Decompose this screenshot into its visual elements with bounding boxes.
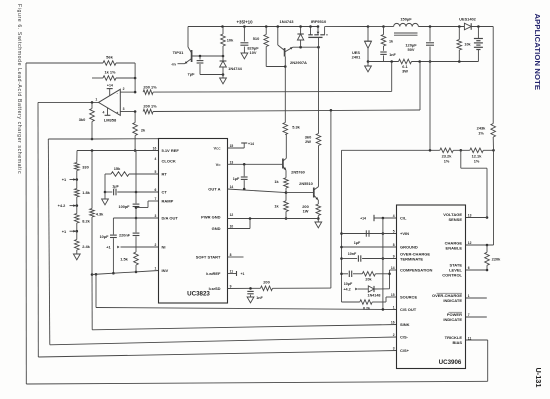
svg-text:ILIMSD: ILIMSD: [209, 286, 221, 291]
terminal +1 upper tap: [62, 177, 77, 182]
capacitor 10uF: [110, 218, 117, 275]
diode 1N4148 label: [368, 294, 381, 298]
svg-text:UC3823: UC3823: [187, 291, 210, 298]
capacitor 100pF: [133, 204, 140, 219]
diode UES1402 label: [459, 17, 476, 22]
terminal -In stub: [178, 63, 185, 65]
UC3906 right pin labels: [432, 212, 472, 345]
resistor 15k label: [114, 166, 121, 171]
right header "APPLICATION NOTE": [533, 14, 542, 91]
svg-text:2.4k: 2.4k: [82, 244, 90, 249]
svg-text:TERMINATE: TERMINATE: [400, 257, 423, 262]
mosfet IRF9510 body arrow lead: [317, 27, 320, 35]
svg-text:7μF: 7μF: [188, 72, 196, 77]
wire GROUND row: [342, 246, 397, 248]
resistor 5.3k label: [292, 125, 300, 130]
wire 5.1V REF row: [77, 149, 159, 152]
bottom right doc number "U-131": [534, 368, 543, 388]
svg-text:200: 200: [263, 279, 270, 284]
resistor 1.5k: [134, 252, 139, 273]
wire INV row to C/S OUT pin: [95, 273, 397, 310]
transistor TIP31 body bar: [191, 50, 193, 62]
wire over-charge indicate row: [466, 297, 487, 299]
svg-text:56k: 56k: [106, 55, 113, 60]
resistor 56k label: [106, 55, 113, 60]
wire rail drain section: [325, 25, 370, 28]
svg-text:1%: 1%: [478, 130, 484, 135]
svg-text:+14: +14: [360, 217, 366, 221]
resistor 1k lower label: [274, 205, 279, 209]
resistor 360 2W label: [305, 135, 312, 145]
wire PWR GND rail: [228, 217, 319, 220]
svg-text:+14: +14: [107, 83, 113, 87]
svg-text:3: 3: [123, 107, 125, 111]
svg-text:Figure 6. Switchmode Lead-Acid: Figure 6. Switchmode Lead-Acid Battery c…: [16, 4, 22, 174]
capacitor 1uF UC3906 label: [354, 241, 361, 245]
wire +35/+10 rail left section: [188, 26, 318, 28]
UC3906 label: [439, 359, 462, 366]
resistor 360 2W: [316, 47, 321, 145]
resistor 1k snubber: [381, 27, 386, 51]
svg-text:1nF: 1nF: [256, 296, 263, 300]
svg-text:4: 4: [154, 157, 156, 161]
transistor Q2 collector: [314, 146, 319, 191]
capacitor 1uF driver label: [233, 177, 240, 181]
svg-text:1μF: 1μF: [112, 185, 119, 189]
svg-text:220k: 220k: [492, 257, 501, 262]
svg-text:+1: +1: [241, 272, 245, 276]
inductor core lines: [394, 33, 418, 35]
resistor 1k upper label: [274, 180, 279, 184]
resistor 220k: [485, 245, 490, 271]
UC3823 label: [187, 291, 210, 298]
terminal +14 at VCC: [228, 142, 255, 148]
wire +VIN feed drop: [340, 150, 343, 302]
svg-text:1: 1: [393, 306, 395, 310]
svg-text:10nF: 10nF: [348, 252, 357, 256]
op-amp pin 2 number: [123, 87, 125, 91]
svg-text:8.2k: 8.2k: [363, 306, 371, 310]
UC3906 left pin labels: [391, 214, 433, 353]
svg-text:16: 16: [153, 147, 157, 151]
svg-text:6: 6: [468, 266, 470, 270]
resistor 510 label: [253, 36, 260, 41]
wire ILIM SD row: [228, 287, 261, 290]
charger IC U2 UC3906 box: [397, 205, 466, 369]
svg-text:D/A OUT: D/A OUT: [162, 216, 179, 221]
wire rail to snubber: [368, 25, 385, 28]
svg-text:3: 3: [393, 347, 395, 351]
svg-text:UC3906: UC3906: [439, 359, 462, 366]
op-amp minus sign: [117, 91, 119, 95]
svg-text:150μF: 150μF: [400, 17, 412, 22]
resistor 200 ILIM label: [263, 279, 270, 284]
svg-text:C/S-: C/S-: [400, 335, 409, 340]
svg-text:PWR GND: PWR GND: [201, 215, 220, 220]
inductor 150uF label: [400, 17, 412, 22]
svg-text:15k: 15k: [114, 166, 121, 171]
resistor 2k below pin3: [133, 112, 138, 152]
resistor 8.2k label: [82, 219, 90, 224]
ground below UES 2401: [365, 60, 372, 72]
svg-text:1%: 1%: [474, 158, 480, 163]
ground below RT/CT: [102, 192, 109, 205]
wire GND pin jog: [228, 219, 251, 229]
transistor 2N2907A collector wire: [278, 27, 285, 51]
zener 1N4744 label: [228, 66, 242, 71]
wire C/L to +VIN vertical: [382, 218, 385, 311]
wire output return line: [368, 60, 478, 63]
capacitor 7uF label: [188, 72, 196, 77]
svg-text:+35/+10: +35/+10: [236, 20, 253, 25]
wire power indicate row: [466, 316, 487, 318]
capacitor 10nF over-charge terminate: [342, 255, 397, 261]
wire D/A OUT row: [113, 217, 158, 219]
wire charge enable drop: [466, 150, 494, 246]
svg-text:5.3k: 5.3k: [292, 125, 300, 130]
svg-text:1N4744: 1N4744: [228, 66, 242, 71]
resistor 330: [75, 151, 80, 181]
capacitor 10uF comp label: [344, 282, 353, 286]
svg-text:C/L: C/L: [400, 216, 407, 221]
wire SOFT START stub: [228, 256, 244, 258]
wire REF row drop x136: [135, 151, 137, 204]
wire +VIN row: [342, 230, 397, 236]
op-amp output wire: [38, 101, 99, 104]
svg-text:VC: VC: [216, 162, 222, 167]
capacitor 10uF label: [100, 235, 110, 239]
transistor Q1 2N5760 bar: [282, 159, 284, 169]
svg-text:VCC: VCC: [213, 146, 221, 151]
terminal +1 lower tap: [62, 229, 77, 234]
svg-text:+VIN: +VIN: [400, 231, 409, 236]
svg-text:SINK: SINK: [400, 322, 410, 327]
ground below 2.4k: [73, 254, 80, 260]
svg-text:CONTROL: CONTROL: [442, 273, 462, 278]
zener 1N4743: [297, 27, 303, 48]
svg-text:-In: -In: [171, 61, 176, 66]
terminal +14 at C/L: [360, 215, 396, 221]
svg-text:12: 12: [468, 241, 472, 245]
resistor 1k lower driver: [284, 193, 289, 220]
svg-text:2W: 2W: [305, 139, 311, 144]
wire 56k right drop to inv input: [134, 63, 137, 93]
resistor 4.3k from REF row: [90, 151, 95, 276]
op-amp pin 3 number: [123, 107, 125, 111]
wire sense line A (shunt left to op-amp): [153, 62, 392, 93]
svg-text:+4.2: +4.2: [343, 288, 350, 292]
op-amp plus sign: [116, 111, 119, 115]
capacitor 220nF: [133, 218, 140, 252]
transistor Q1 label 2N5760: [291, 170, 305, 175]
svg-text:C/S OUT: C/S OUT: [400, 307, 417, 312]
op-amp pin 3 input wire: [120, 110, 136, 113]
wire trickle-bias loop (outermost): [26, 63, 488, 384]
capacitor 820uF 10V: [240, 27, 248, 59]
svg-text:220nF: 220nF: [119, 233, 131, 237]
capacitor 1nF snubber label: [389, 53, 396, 57]
capacitor 1nF snubber: [380, 52, 386, 62]
resistor 8.2k uc3906 label: [363, 306, 371, 310]
svg-text:1%: 1%: [444, 158, 450, 163]
capacitor 1uF on CT row: [105, 189, 159, 196]
svg-text:OUT A: OUT A: [208, 187, 220, 192]
svg-text:+4.2: +4.2: [58, 203, 67, 208]
svg-text:200 1%: 200 1%: [143, 84, 157, 89]
capacitor 100pF label: [119, 205, 131, 209]
resistor 5.3k gate drive: [283, 123, 288, 135]
resistor 1.5k label: [120, 257, 128, 262]
wire voltage sense tap: [461, 150, 489, 219]
resistor 1.8k label: [82, 190, 90, 195]
svg-text:BIAS: BIAS: [452, 340, 462, 345]
svg-text:6: 6: [154, 188, 156, 192]
svg-text:APPLICATION NOTE: APPLICATION NOTE: [533, 14, 542, 91]
resistor 200 1% lower: [143, 109, 153, 114]
diode 1N4148 to compensation: [358, 286, 390, 292]
transistor Q1 emitter: [283, 166, 286, 170]
resistor 4.3k label: [96, 212, 104, 217]
left margin caption "Figure 6. Switchmode Lead-Acid Battery charger schematic": [16, 4, 22, 174]
wire divider mid: [453, 149, 470, 151]
svg-text:3W: 3W: [402, 69, 408, 74]
capacitor 120uF 50V label: [405, 43, 417, 52]
transistor 2N2907A label: [290, 60, 307, 65]
capacitor 1uF driver: [241, 164, 248, 190]
resistor 1k 1% label: [104, 70, 116, 75]
svg-text:1: 1: [95, 97, 97, 101]
zener 1N4744: [220, 56, 227, 75]
resistor 2.4k label: [82, 244, 90, 249]
battery: [474, 27, 483, 62]
svg-text:2: 2: [154, 243, 156, 247]
UC3823 left pin labels: [153, 147, 180, 273]
op-amp pin 1 number: [95, 97, 97, 101]
resistor 20k compensation: [362, 272, 389, 277]
svg-text:16: 16: [391, 321, 395, 325]
svg-text:5.1V REF: 5.1V REF: [162, 148, 180, 153]
mosfet IRF9510 gate lead: [318, 37, 320, 47]
resistor 10k bleeder label: [464, 43, 471, 47]
svg-text:COMPENSATION: COMPENSATION: [400, 268, 432, 273]
transistor 2N2907A base drop: [284, 57, 286, 123]
svg-text:2: 2: [123, 87, 125, 91]
resistor 200 1% upper: [143, 90, 153, 95]
mosfet IRF9510 channel dashes: [308, 34, 327, 36]
svg-text:ENABLE: ENABLE: [446, 246, 463, 251]
svg-text:+14: +14: [248, 142, 254, 146]
svg-text:RT: RT: [162, 172, 168, 177]
capacitor 10uF compensation: [342, 271, 363, 277]
resistor 23.2k 1%: [440, 148, 454, 153]
transistor TIP31 emitter with arrow: [185, 59, 192, 64]
resistor 15k on RT: [105, 172, 159, 177]
junction dots on rail: [221, 25, 319, 28]
wire battery divider line: [342, 149, 463, 152]
svg-text:330: 330: [82, 165, 89, 170]
wire RT corner to ground: [104, 174, 107, 193]
resistor 12.1k 1%: [470, 148, 484, 153]
wire gate node: [293, 46, 320, 49]
capacitor 1nF at ILIM SD: [247, 291, 254, 302]
svg-text:1.5k: 1.5k: [120, 257, 128, 262]
op-amp pin 2 input wire: [120, 91, 135, 93]
svg-text:SOFT START: SOFT START: [196, 255, 221, 260]
capacitor 820uF label: [247, 46, 259, 56]
svg-text:U-131: U-131: [534, 368, 543, 388]
resistor 10k (TIP31 bias) on rail drop: [221, 27, 226, 57]
svg-text:7: 7: [154, 197, 156, 201]
svg-text:1N4743: 1N4743: [279, 19, 294, 24]
svg-text:1: 1: [154, 267, 156, 271]
node +35/+10 label: [236, 20, 253, 25]
svg-text:14: 14: [230, 185, 234, 189]
resistor 8.2k to SOURCE: [342, 297, 397, 304]
svg-text:1: 1: [468, 294, 470, 298]
transistor TIP31 base wire: [192, 55, 225, 58]
terminal +1 at NI pin: [106, 245, 158, 250]
resistor 10k label: [227, 38, 234, 43]
svg-text:10k: 10k: [464, 43, 471, 47]
op-amp +14 supply tick: [107, 83, 113, 96]
resistor 3k0 label: [79, 117, 86, 122]
svg-text:SOURCE: SOURCE: [400, 295, 417, 300]
wire voltage sense row: [466, 217, 488, 219]
svg-text:NI: NI: [162, 245, 166, 250]
resistor 10k output bleeder: [457, 27, 462, 62]
svg-text:8: 8: [393, 243, 395, 247]
ground below 1N4744: [220, 75, 227, 84]
mosfet IRF9510 label: [311, 19, 327, 24]
svg-text:11: 11: [468, 337, 472, 341]
transistor Q1 collector: [283, 135, 286, 162]
UC3823 right pin labels: [196, 144, 234, 291]
svg-text:INDICATE: INDICATE: [443, 317, 462, 322]
svg-text:10μF: 10μF: [344, 282, 353, 286]
svg-text:9: 9: [393, 255, 395, 259]
svg-text:4: 4: [102, 111, 104, 115]
svg-text:100pF: 100pF: [119, 205, 131, 209]
svg-text:2N5510: 2N5510: [299, 181, 313, 186]
capacitor 1nF ILIM label: [256, 296, 263, 300]
op-amp U1 UC3823 box: [159, 139, 228, 304]
svg-text:2: 2: [393, 333, 395, 337]
op-amp LM358 label: [104, 118, 117, 123]
wire output cap node down: [429, 62, 431, 151]
wire 510 bottom to 2N2907A base: [266, 65, 286, 68]
svg-text:CLOCK: CLOCK: [162, 158, 176, 163]
capacitor 1uF label: [112, 185, 119, 189]
terminal -In label: [171, 61, 176, 66]
resistor 200 ILIM: [261, 286, 273, 291]
resistor 56k feedback: [26, 61, 135, 66]
svg-text:4.3k: 4.3k: [96, 212, 104, 217]
svg-text:2N5760: 2N5760: [291, 170, 305, 175]
svg-text:3: 3: [154, 214, 156, 218]
resistor 243k label: [477, 126, 486, 136]
svg-text:1N4148: 1N4148: [368, 294, 381, 298]
transistor 2N2907A emitter with arrow: [285, 47, 293, 52]
transistor Q2 label 2N5510: [299, 181, 313, 186]
svg-text:510: 510: [253, 36, 260, 41]
wire INV row: [92, 271, 159, 275]
resistor 200 1W label: [302, 204, 309, 214]
svg-text:1.8k: 1.8k: [82, 190, 90, 195]
diode UES1402: [464, 23, 493, 30]
svg-text:1μF: 1μF: [233, 177, 240, 181]
svg-text:GND: GND: [212, 226, 221, 231]
transistor Q2 emitter: [314, 195, 319, 200]
transistor 2N2907A body bar: [284, 48, 286, 57]
svg-text:INDICATE: INDICATE: [443, 298, 462, 303]
wire sense line B (shunt right to op-amp): [153, 62, 420, 112]
wire VC row to driver base: [228, 163, 283, 166]
svg-text:50V: 50V: [408, 47, 415, 52]
transistor TIP31 collector wire: [188, 27, 192, 54]
svg-text:SENSE: SENSE: [448, 217, 462, 222]
resistor 1k snubber label: [389, 40, 394, 44]
svg-text:20k: 20k: [365, 278, 372, 282]
resistor 12.1k label: [472, 154, 483, 164]
resistor 6.1 3W current shunt: [399, 59, 412, 64]
svg-text:TIP31: TIP31: [173, 50, 184, 55]
capacitor 120uF 50V output: [426, 27, 434, 63]
resistor 3k0 below output: [90, 102, 95, 140]
wire rail after inductor: [418, 25, 464, 28]
resistor 2.4k: [75, 231, 80, 254]
svg-text:IRF9510: IRF9510: [311, 19, 327, 24]
mosfet IRF9510 drain lead: [324, 27, 326, 35]
wire op-amp output to C/S+ pin: [38, 102, 397, 357]
diode UES 2401 label: [352, 50, 361, 60]
svg-text:CT: CT: [162, 190, 168, 195]
resistor 2k label: [141, 128, 146, 133]
op-amp pin 4 tick: [102, 108, 110, 116]
resistor 243k 1%: [491, 27, 496, 151]
svg-text:14: 14: [391, 266, 395, 270]
resistor 23.2k label: [442, 154, 453, 164]
svg-text:2401: 2401: [352, 55, 361, 60]
resistor 200 1% lower label: [143, 104, 157, 109]
zener 1N4743 label: [279, 19, 294, 24]
wire state level control row: [466, 269, 488, 271]
ground driver rail: [315, 219, 322, 228]
svg-text:7: 7: [468, 313, 470, 317]
svg-text:GROUND: GROUND: [400, 245, 418, 250]
svg-text:RAMP: RAMP: [162, 199, 174, 204]
wire driver mid node to Q2 base: [286, 192, 314, 194]
svg-text:UES1402: UES1402: [459, 17, 476, 22]
diode UES 2401 freewheel: [365, 27, 372, 62]
svg-text:5: 5: [154, 170, 156, 174]
wire 3k0 node to C/S- pin: [48, 139, 396, 345]
wire trickle bias row: [466, 339, 488, 341]
resistor 200 1W: [316, 200, 321, 220]
resistor 200 1% upper label: [143, 84, 157, 89]
svg-text:1μF: 1μF: [354, 241, 361, 245]
svg-text:1k 1%: 1k 1%: [104, 70, 116, 75]
svg-text:1nF: 1nF: [389, 53, 396, 57]
mosfet IRF9510 gate bar: [308, 36, 322, 38]
svg-text:13: 13: [468, 214, 472, 218]
svg-text:5: 5: [393, 230, 395, 234]
svg-text:8.2k: 8.2k: [82, 219, 90, 224]
terminal +4.2 diode row: [343, 288, 357, 292]
svg-text:15: 15: [391, 293, 395, 297]
svg-text:C/S+: C/S+: [400, 348, 410, 353]
svg-text:INV: INV: [162, 268, 169, 273]
wire COMPENSATION pin jog: [388, 270, 396, 289]
